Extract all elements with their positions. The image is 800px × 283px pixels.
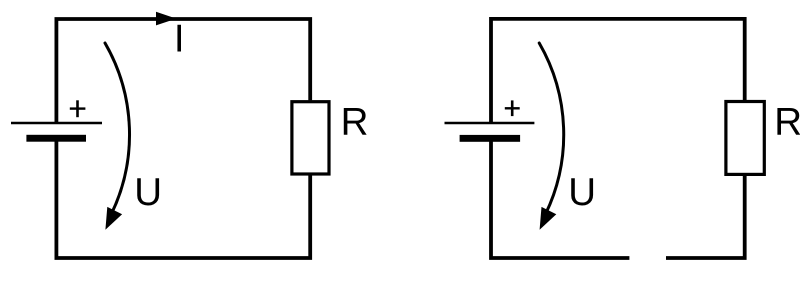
plus label (battery B2) <box>505 100 520 116</box>
wire left+top+upper-right (circuit 2) <box>491 19 745 122</box>
svg-text:R: R <box>341 100 369 143</box>
svg-text:U: U <box>568 171 596 214</box>
svg-text:I: I <box>174 18 185 61</box>
wire left+top+upper-right (circuit 1) <box>56 19 310 122</box>
resistor R (circuit 1) <box>292 102 329 174</box>
wire lower-left+bottom-left segment (circuit 2, open) <box>491 141 629 258</box>
svg-text:R: R <box>774 100 800 143</box>
svg-text:U: U <box>134 171 162 214</box>
battery B1 thick plate (-) <box>26 135 86 142</box>
battery B2 thick plate (-) <box>460 135 520 142</box>
voltage arrow U (circuit 2) <box>539 43 564 230</box>
battery B1 thin plate (+) <box>11 122 102 124</box>
wire lower-left+bottom+lower-right (circuit 1) <box>56 141 310 258</box>
resistor R (circuit 2) <box>726 102 764 175</box>
wire bottom-right segment+lower-right (circuit 2, open) <box>666 176 745 258</box>
battery B2 thin plate (+) <box>445 122 535 124</box>
voltage arrow U (circuit 1) <box>105 43 130 230</box>
current arrow head (circuit 1) <box>156 12 176 26</box>
plus label (battery B1) <box>70 100 86 117</box>
